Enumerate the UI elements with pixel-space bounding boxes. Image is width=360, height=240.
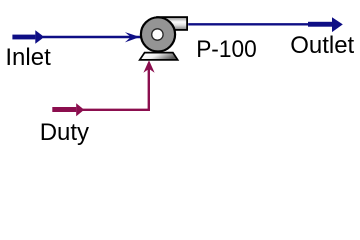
wire Duty energy stream vertical line (148, 63, 150, 111)
svg-text:P-100: P-100 (196, 36, 257, 63)
wire Inlet stream line to pump (43, 36, 141, 38)
wire Duty energy stream horizontal line (83, 109, 151, 111)
pump P-100 discharge nozzle (157, 17, 187, 30)
pump P-100 base pedestal (140, 53, 178, 60)
wire Inlet stream dart arrowhead at pump (125, 32, 140, 42)
wire Outlet stream end bar (308, 22, 332, 27)
wire Inlet stream arrowhead (35, 30, 44, 43)
wire Duty energy stream up arrowhead into pump (143, 60, 154, 72)
wire Inlet stream start bar (12, 35, 35, 40)
wire Outlet stream arrowhead (332, 17, 343, 32)
svg-text:Inlet: Inlet (5, 44, 51, 71)
wire Outlet stream line from pump (188, 23, 310, 25)
svg-text:Outlet: Outlet (290, 32, 354, 59)
pump P-100 impeller hole (152, 29, 163, 40)
wire Duty energy stream start arrowhead (76, 103, 84, 116)
pump P-100 casing circle (141, 17, 175, 51)
wire Duty energy stream start bar (52, 107, 76, 112)
svg-text:Duty: Duty (40, 119, 89, 146)
